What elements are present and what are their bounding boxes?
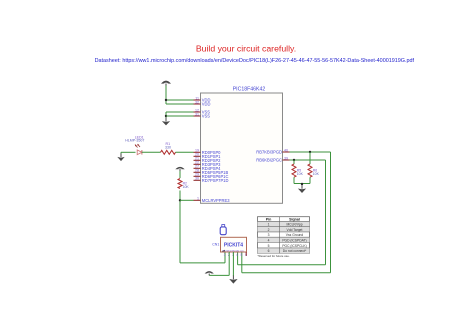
pin 19 RD0 <box>194 149 222 155</box>
wire R1 to pin19 <box>176 151 194 153</box>
junction R bottoms <box>301 183 303 185</box>
LED LED1 <box>125 136 144 155</box>
svg-text:330: 330 <box>165 146 171 150</box>
svg-text:31: 31 <box>195 112 199 116</box>
svg-text:4: 4 <box>268 239 270 243</box>
junction MCLR <box>179 199 181 201</box>
svg-text:Vss Ground: Vss Ground <box>286 233 304 237</box>
resistor R1 330 <box>161 142 176 154</box>
wire R5 top <box>293 160 295 164</box>
svg-text:1: 1 <box>224 253 226 257</box>
table pinout <box>258 217 310 258</box>
pin 12 VSS <box>194 108 211 114</box>
junction PGD/R6 <box>309 151 311 153</box>
title text <box>196 44 296 54</box>
svg-text:2: 2 <box>268 228 270 232</box>
pin 39 RB6 <box>256 156 289 162</box>
pin 22 RD3 <box>194 161 222 167</box>
wire LED to R1 <box>142 151 161 153</box>
svg-text:VDD: VDD <box>202 102 211 107</box>
svg-text:6: 6 <box>268 249 270 253</box>
svg-text:Datasheet: https://ww1.microch: Datasheet: https://ww1.microchip.com/dow… <box>95 58 415 64</box>
wire VSS vertical <box>165 112 167 118</box>
power flag VCC PICKIT VDD <box>205 271 214 275</box>
wire VSS pin31 <box>166 115 194 117</box>
pin 30 RD7 <box>194 177 229 183</box>
junction VSS <box>165 115 167 117</box>
svg-text:32: 32 <box>195 100 199 104</box>
wire R6 top <box>309 152 311 164</box>
pin 28 RD5 <box>194 169 229 175</box>
wire PGD net (pin40) <box>242 152 331 273</box>
svg-text:4: 4 <box>236 253 238 257</box>
pin 32 VDD <box>194 100 211 106</box>
pin 27 RD4 <box>194 165 222 171</box>
wire MCLR vertical <box>179 191 181 263</box>
connector CN1 PICKIT4 box <box>212 237 246 252</box>
svg-text:10K: 10K <box>313 172 320 176</box>
resistor R5 10K <box>292 164 304 177</box>
power flag VCC top <box>161 81 171 104</box>
pin 1 MCLR <box>194 197 231 203</box>
svg-text:Build your circuit carefully.: Build your circuit carefully. <box>196 44 296 54</box>
resistor R6 10K <box>308 164 320 177</box>
IC U1 PIC18F46K42 <box>201 86 283 203</box>
svg-text:Vdd Target: Vdd Target <box>287 228 303 232</box>
ground top-left <box>162 118 170 126</box>
wire PICKIT pin2 VDD <box>209 252 229 275</box>
svg-text:Pin: Pin <box>266 218 272 222</box>
svg-text:10K: 10K <box>183 185 190 189</box>
svg-text:Signal: Signal <box>289 218 300 222</box>
wire VDD pin11 <box>166 99 194 101</box>
wire MCLR to pin1 <box>180 199 194 201</box>
wire resistor bottoms <box>294 177 310 185</box>
svg-text:10K: 10K <box>297 172 304 176</box>
svg-text:RB6KBI2PGC: RB6KBI2PGC <box>256 158 282 163</box>
svg-text:*Reserved for future use.: *Reserved for future use. <box>258 254 290 258</box>
wire PICKIT pin3 GND <box>232 252 234 276</box>
pin 29 RD6 <box>194 173 229 179</box>
pin 6 stub <box>245 252 247 256</box>
svg-text:Do not connect*: Do not connect* <box>283 249 307 253</box>
svg-text:PGC (ICSPCLK): PGC (ICSPCLK) <box>282 244 306 248</box>
pin 20 RD1 <box>194 153 222 159</box>
svg-text:MCLRVPPRE3: MCLRVPPRE3 <box>202 198 230 203</box>
svg-text:40: 40 <box>284 148 288 152</box>
svg-text:1: 1 <box>197 197 199 201</box>
svg-text:CN1: CN1 <box>212 242 219 246</box>
ground PICKIT <box>229 276 237 284</box>
junction VDD <box>165 99 167 101</box>
wire VSS pin12 <box>166 111 194 113</box>
wire MCLR to PICKIT pin1 <box>180 252 225 263</box>
svg-text:RB7KBI3PGD: RB7KBI3PGD <box>256 150 282 155</box>
svg-text:39: 39 <box>284 156 288 160</box>
svg-text:5: 5 <box>268 244 270 248</box>
pin 11 VDD <box>194 96 211 102</box>
pin 40 RB7 <box>256 148 289 154</box>
svg-text:VSS: VSS <box>202 114 210 119</box>
svg-text:PICKIT4: PICKIT4 <box>224 242 243 248</box>
svg-text:PGD (ICSPDAT): PGD (ICSPDAT) <box>282 239 306 243</box>
svg-text:1: 1 <box>268 223 270 227</box>
svg-text:MCLR/Vpp: MCLR/Vpp <box>286 223 302 227</box>
svg-text:HLMP-3507: HLMP-3507 <box>125 138 144 142</box>
datasheet link text <box>95 58 415 64</box>
junction PGC/R5 <box>293 159 295 161</box>
pin 31 VSS <box>194 112 211 118</box>
pin 21 RD2 <box>194 157 222 163</box>
svg-text:3: 3 <box>268 233 270 237</box>
resistor R2 10K (MCLR pullup) <box>178 179 189 190</box>
wire VDD pin32 <box>166 103 194 105</box>
ground pulldowns <box>298 185 306 193</box>
USB icon <box>220 225 226 235</box>
PICKIT pin numbers <box>224 253 248 257</box>
svg-text:PIC18F46K42: PIC18F46K42 <box>233 86 266 92</box>
svg-text:5: 5 <box>240 253 242 257</box>
wire LED net left <box>121 152 136 154</box>
wire PGC net (pin39) <box>238 160 326 265</box>
power flag VCC MCLR pullup <box>175 167 184 178</box>
svg-text:RD7PSP7P1D: RD7PSP7P1D <box>202 178 229 183</box>
svg-text:30: 30 <box>195 177 199 181</box>
ground LED <box>117 154 124 162</box>
